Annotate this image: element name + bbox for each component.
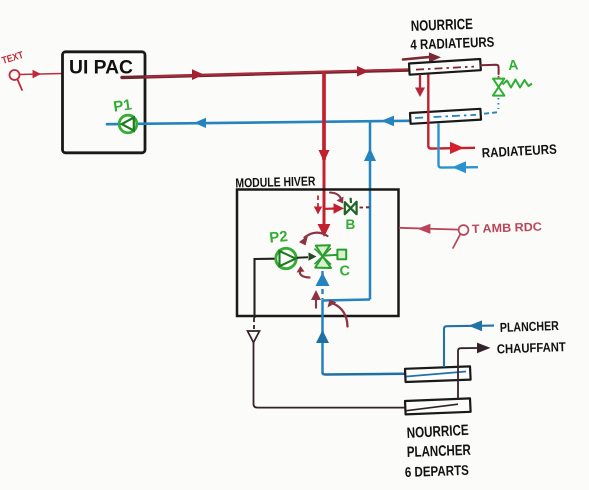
manifold radiators supply [409, 59, 481, 75]
svg-text:A: A [508, 56, 519, 73]
arrowhead chauffant (right) [477, 343, 491, 354]
wire dark floor CHAUFFANT [458, 348, 477, 399]
arrowhead blue up at box bottom [316, 330, 329, 343]
arrowhead return 2 (left, near manifold) [381, 116, 394, 127]
arrow into radiator supply manifold [403, 52, 441, 62]
wire sensor to UI PAC [20, 71, 63, 78]
arrowhead supply 2 [357, 66, 369, 77]
wire PAC supply (dark red main line) [122, 69, 410, 77]
wire blue horizontal in module bottom [323, 300, 371, 373]
small dashed red arrow down (bypass) [314, 196, 322, 215]
arrowhead blue branch (up) [364, 148, 376, 161]
arrowhead return 1 (left) [194, 118, 206, 128]
svg-text:6 DEPARTS: 6 DEPARTS [405, 462, 470, 480]
box UI PAC [63, 52, 146, 153]
arrow pump P2 to valve C [297, 252, 317, 260]
wire blue dashed below valve C [321, 271, 323, 299]
arrowhead blue retour (left) [452, 161, 466, 173]
sensor TEXT (outdoor sensor) [10, 70, 23, 90]
blue dotted below valve A [497, 98, 499, 109]
manifold floor return [405, 398, 471, 414]
arrowhead blue up below valve C [316, 273, 330, 287]
wire red arrow to valve B [326, 203, 345, 214]
pink wire T AMB RDC [399, 224, 459, 233]
wire blue to floor supply manifold [323, 373, 406, 375]
red down arrow below supply manifold [415, 75, 425, 98]
svg-text:T AMB RDC: T AMB RDC [472, 220, 543, 236]
manifold radiators return [410, 109, 481, 124]
svg-text:PLANCHER: PLANCHER [407, 442, 472, 461]
wire blue floor to PLANCHER [444, 326, 494, 367]
svg-text:NOURRICE: NOURRICE [406, 422, 469, 442]
curved flow arrow bottom-right [328, 300, 348, 327]
svg-text:4 RADIATEURS: 4 RADIATEURS [410, 34, 495, 53]
arrowhead blue plancher (left) [469, 320, 483, 331]
wire pump P2 inlet (black) [255, 259, 277, 318]
valve B (green bowtie) [345, 198, 357, 214]
svg-text:P2: P2 [269, 228, 289, 247]
svg-text:MODULE HIVER: MODULE HIVER [235, 173, 316, 190]
arrowhead red vertical end (big) [318, 224, 331, 237]
wire PAC return (blue main line) [107, 121, 410, 124]
wire blue retour radiateurs [439, 124, 479, 168]
red dotted to valve A [498, 76, 500, 80]
module box [237, 190, 399, 317]
arrowhead red vertical mid [319, 150, 330, 162]
wire red vertical drop to module [322, 72, 326, 161]
curved arrow to valve B (maroon hook) [330, 193, 344, 204]
pump P2 [276, 248, 296, 268]
manifold floor supply [405, 366, 471, 382]
svg-text:NOURRICE: NOURRICE [411, 16, 474, 35]
valve A (differential valve with spring) [493, 79, 532, 96]
sensor T AMB RDC [453, 225, 468, 248]
svg-text:UI PAC: UI PAC [69, 58, 133, 79]
arrowhead red departs [450, 142, 464, 154]
valve C (3-way mixing valve) [315, 245, 347, 268]
wire dashed maroon after valve B [360, 206, 372, 208]
maroon arrow up at box bottom [311, 290, 321, 309]
svg-text:C: C [340, 264, 351, 280]
curved flow arrow upper-left of valve C [299, 233, 328, 246]
arrowhead supply 1 [192, 69, 204, 80]
curved flow arrow lower-left of valve C [297, 266, 310, 278]
svg-text:P1: P1 [112, 96, 133, 115]
blue dash to return manifold [481, 112, 497, 114]
wire blue vertical branch to module [369, 122, 372, 300]
pump P1 [119, 115, 137, 133]
wire black down to floor return manifold [248, 318, 406, 408]
maroon hook at supply manifold right [481, 65, 499, 74]
svg-text:CHAUFFANT: CHAUFFANT [497, 339, 567, 356]
svg-text:PLANCHER: PLANCHER [500, 318, 560, 335]
svg-text:B: B [346, 217, 356, 232]
wire red departs radiateurs [428, 75, 475, 149]
